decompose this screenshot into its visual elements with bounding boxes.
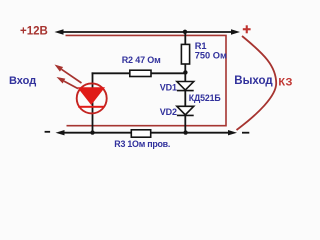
wire: LED branch vertical	[92, 72, 94, 132]
resistor R1	[181, 44, 189, 64]
resistor R2	[130, 70, 151, 76]
svg-text:+12В: +12В	[20, 26, 48, 38]
light arrow 2	[57, 77, 79, 89]
junction dot bottom (diode column / bottom rail)	[183, 130, 187, 134]
svg-text:Выход: Выход	[234, 75, 273, 87]
output short-circuit bracket	[237, 36, 277, 130]
plus terminal right	[243, 28, 251, 30]
svg-text:КД521Б: КД521Б	[189, 93, 222, 103]
junction dot middle (R2 wire / diode column)	[183, 70, 187, 74]
svg-text:VD1: VD1	[160, 83, 177, 93]
top rail wire (black, arrowheads both ends)	[55, 29, 241, 34]
svg-text:R1: R1	[195, 41, 207, 51]
junction dot top (R1 / top rail)	[183, 30, 187, 34]
wire: diode column vertical	[184, 32, 186, 133]
wire: R2 to diode column	[151, 72, 186, 74]
red current-loop conductor (top, right side, bottom)	[66, 35, 227, 125]
wire: corner to R2	[92, 72, 130, 74]
diode VD1	[177, 82, 194, 91]
photodiode cathode bar	[78, 106, 104, 108]
svg-text:750 Ом: 750 Ом	[195, 51, 227, 61]
svg-text:Вход: Вход	[9, 75, 36, 87]
resistor R3	[131, 130, 150, 137]
junction dot LED / bottom rail	[90, 130, 94, 134]
minus terminal left	[45, 131, 51, 133]
photodiode circle	[77, 83, 107, 113]
minus terminal right	[242, 132, 249, 134]
diode VD2	[177, 106, 194, 115]
svg-text:R2 47 Ом: R2 47 Ом	[122, 55, 161, 65]
svg-text:КЗ: КЗ	[278, 77, 292, 89]
svg-text:R3 1Ом пров.: R3 1Ом пров.	[114, 139, 170, 149]
bottom rail wire (black, arrowheads both ends)	[56, 130, 238, 135]
photodiode triangle	[78, 88, 104, 105]
svg-text:VD2: VD2	[160, 107, 177, 117]
light arrow 1	[55, 65, 82, 84]
